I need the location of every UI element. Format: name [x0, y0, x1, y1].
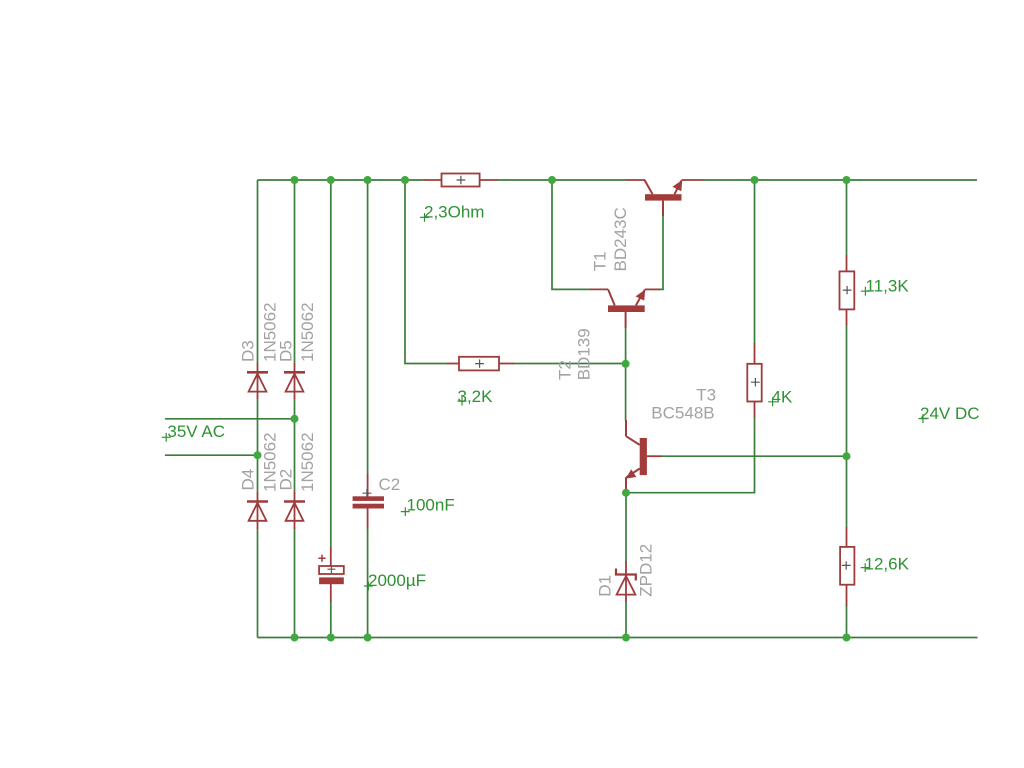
transistor T3 BC548B [626, 420, 662, 491]
zener diode D1 ZPD12 [616, 569, 636, 595]
svg-text:3,2K: 3,2K [458, 387, 494, 406]
svg-text:ZPD12: ZPD12 [637, 544, 656, 597]
wire 3.2K to T2 base node [514, 363, 626, 365]
node bottom rail x295 [291, 634, 299, 642]
wire 12.6K bottom [846, 606, 848, 638]
node T2 base / 3.2K [622, 360, 630, 368]
svg-text:12,6K: 12,6K [865, 555, 910, 574]
wire 2000uF column top [330, 180, 332, 548]
resistor 12,6K [840, 547, 854, 585]
wire T3 emitter node to 4K bottom [626, 417, 755, 493]
wire left vertical D3/D4 column [257, 180, 259, 364]
node top rail x331 [327, 176, 335, 184]
resistor 3.2K lead left [448, 363, 460, 365]
svg-text:T3: T3 [696, 386, 716, 405]
resistor 11.3K lead bottom [846, 309, 848, 325]
net label 24V DC [918, 404, 979, 423]
red symbol leads [258, 180, 847, 606]
svg-text:1N5062: 1N5062 [298, 302, 317, 362]
wire bottom rail [258, 637, 978, 639]
svg-text:BD243C: BD243C [611, 207, 630, 271]
node divider [843, 452, 851, 460]
node top rail x368 [364, 176, 372, 184]
svg-text:100nF: 100nF [407, 496, 455, 515]
wire T2 base vertical [625, 328, 627, 365]
value label 4K [768, 388, 793, 407]
svg-text:D1: D1 [596, 575, 615, 597]
svg-text:BD139: BD139 [575, 328, 594, 380]
wire 4K top feed from rail [754, 180, 756, 344]
svg-text:C2: C2 [379, 475, 401, 494]
node top rail x405 [401, 176, 409, 184]
svg-text:24V DC: 24V DC [920, 404, 980, 423]
wire T2 base node to T3 collector [625, 364, 627, 421]
resistor 3.2K lead right [499, 363, 515, 365]
capacitor C2 100nF [353, 489, 384, 509]
wire 3.2K feed vertical [405, 180, 448, 364]
value label 12,6K [861, 555, 910, 574]
node AC upper [291, 415, 299, 423]
diode D5 lead [294, 364, 296, 400]
wire C2 column bottom [367, 528, 369, 638]
wire top rail left segment [258, 179, 425, 181]
svg-text:4K: 4K [772, 388, 793, 407]
resistor 12.6K lead top [846, 528, 848, 548]
node top rail x846 [843, 176, 851, 184]
node bottom rail x331 [327, 634, 335, 642]
net label 35V AC [162, 422, 225, 442]
diode D3 [247, 372, 268, 391]
diode D2 lead [294, 492, 296, 529]
value label 3,2K [458, 387, 494, 406]
wires group [165, 180, 978, 638]
node AC lower [254, 451, 262, 459]
wire D3-D4 mid segment [257, 399, 259, 493]
diode D2 [284, 502, 305, 521]
node T3 emitter [622, 489, 630, 497]
resistor R1 2,3Ohm [442, 174, 480, 187]
svg-text:T1: T1 [591, 251, 610, 271]
wire zener bottom [625, 601, 627, 638]
capacitor 2000uF leads [330, 548, 332, 567]
node bottom rail x846 [843, 634, 851, 642]
svg-text:2,3Ohm: 2,3Ohm [424, 203, 484, 222]
wire 11.3K column top [846, 180, 848, 256]
wire 2000uF column bottom [330, 602, 332, 638]
wire top rail right segment [702, 179, 977, 181]
value label 2,3Ohm [420, 203, 484, 222]
transistor T1 BD243C [627, 180, 703, 216]
wire T3 base to divider node [662, 455, 847, 457]
svg-text:35V AC: 35V AC [167, 422, 225, 441]
wire D2 bottom segment [294, 529, 296, 638]
resistor 11,3K [840, 271, 855, 309]
node top rail x552 [548, 176, 556, 184]
wire AC input upper [165, 418, 295, 420]
resistor R 2.3Ohm lead left [424, 179, 442, 181]
svg-text:T2: T2 [556, 360, 575, 380]
diode D4 lead [257, 492, 259, 529]
resistor R 2.3Ohm lead right [480, 179, 498, 181]
node top rail x754 [751, 176, 759, 184]
value label 100nF [401, 496, 455, 517]
wire AC input lower [165, 454, 258, 456]
wire T2 collector feed from rail [552, 180, 591, 289]
svg-text:11,3K: 11,3K [866, 277, 910, 296]
svg-text:1N5062: 1N5062 [298, 432, 317, 492]
diode D5 [284, 372, 305, 391]
diode D3 lead [257, 364, 259, 400]
resistor 4K [747, 364, 761, 402]
svg-text:2000µF: 2000µF [368, 571, 426, 590]
svg-text:BC548B: BC548B [651, 404, 714, 423]
node top rail x295 [291, 176, 299, 184]
svg-text:D3: D3 [239, 340, 258, 362]
resistor 4K lead bottom [754, 402, 756, 418]
node bottom rail x368 [364, 634, 372, 642]
value label 2000uF [364, 571, 426, 590]
svg-text:D2: D2 [277, 469, 296, 491]
wire T3 emitter node down to zener [625, 493, 627, 562]
wire top rail mid segment [497, 179, 627, 181]
wire D4 bottom segment [257, 529, 259, 638]
value label 11,3K [861, 277, 909, 296]
wire 11.3K to divider node [846, 325, 848, 529]
resistor 4K lead top [754, 343, 756, 364]
wire D5/D2 column top [294, 180, 296, 364]
svg-text:D4: D4 [239, 469, 258, 491]
capacitor C2 leads [367, 474, 369, 497]
zener D1 lead [625, 561, 627, 602]
resistor 12.6K lead bottom [846, 585, 848, 606]
svg-text:D5: D5 [277, 340, 296, 362]
diode D4 [247, 502, 268, 521]
resistor 3,2K [459, 357, 499, 371]
wire C2 column top [367, 180, 369, 475]
resistor 11.3K lead top [846, 256, 848, 272]
capacitor 2000uF electrolytic [318, 555, 343, 585]
wire D5-D2 mid segment [294, 399, 296, 493]
transistor T2 BD139 [590, 289, 660, 328]
node bottom rail x626 [622, 634, 630, 642]
wire T1 base vertical [660, 216, 664, 290]
